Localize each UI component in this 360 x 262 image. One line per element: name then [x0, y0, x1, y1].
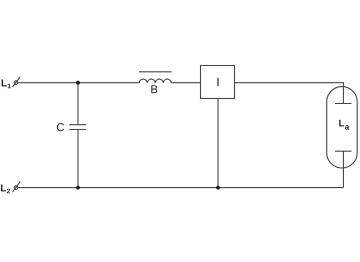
wire bottom rail — [18, 187, 343, 189]
label B — [151, 85, 157, 93]
lamp electrode bottom — [335, 150, 352, 152]
wire box I to lamp top corner — [235, 83, 344, 104]
capacitor C — [69, 125, 86, 130]
node junction bottom rail / capacitor — [76, 186, 80, 190]
wire lamp bottom stem — [342, 151, 344, 187]
label C — [57, 123, 64, 131]
label L2 — [1, 185, 10, 194]
lamp electrode top — [335, 103, 352, 105]
terminal L1 — [13, 77, 21, 87]
label L1 — [2, 80, 11, 89]
wire box I bottom to rail — [217, 99, 219, 188]
inductor B — [139, 72, 172, 83]
label I — [217, 78, 218, 86]
wire inductor to box I — [171, 82, 200, 84]
node junction bottom rail / box I — [216, 186, 220, 190]
node junction top rail / capacitor — [76, 81, 80, 85]
box I (starter) — [201, 66, 235, 99]
lamp La bulb outline — [327, 87, 358, 168]
wire top rail from L1 to inductor — [18, 82, 139, 84]
wire capacitor branch bottom — [77, 130, 79, 188]
wire capacitor branch top — [77, 83, 79, 125]
terminal L2 — [13, 182, 21, 192]
label La — [339, 120, 349, 130]
